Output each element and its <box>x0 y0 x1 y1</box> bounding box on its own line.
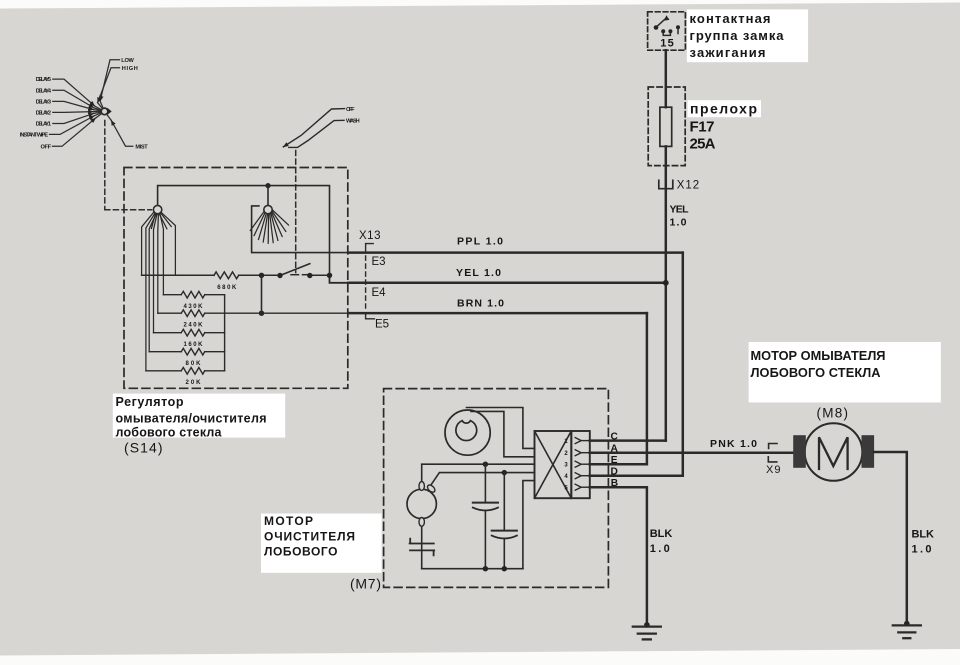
svg-text:15: 15 <box>660 38 674 50</box>
svg-text:1.0: 1.0 <box>912 543 932 555</box>
svg-text:C: C <box>611 432 619 443</box>
wire contact to riser <box>310 274 330 276</box>
junction YEL feed <box>663 280 669 286</box>
wire ignition to fuse <box>665 50 668 107</box>
svg-text:омывателя/очистителя: омывателя/очистителя <box>116 411 267 425</box>
wire BRN vertical to pin E <box>590 313 647 464</box>
svg-text:YEL 1.0: YEL 1.0 <box>456 267 501 279</box>
svg-text:E4: E4 <box>372 287 387 299</box>
washer switch lever OFF <box>283 109 344 147</box>
svg-text:OFF: OFF <box>41 144 52 150</box>
tap wire main row to 240K row <box>261 275 263 313</box>
svg-text:OFF: OFF <box>346 107 355 113</box>
park cam outer circle <box>445 410 490 455</box>
svg-text:ЛОБОВОГО: ЛОБОВОГО <box>264 544 338 558</box>
svg-text:X13: X13 <box>359 230 381 242</box>
wire resistor to contact <box>239 274 280 276</box>
M7 motor label <box>261 514 382 573</box>
M8 washer motor label <box>749 342 941 403</box>
wire motor bottom lead <box>421 526 423 568</box>
wire motor brush to pin 3 <box>422 464 535 481</box>
S14 regulator dashed box <box>124 168 348 389</box>
svg-text:Регулятор: Регулятор <box>116 395 184 409</box>
svg-text:80K: 80K <box>186 361 202 367</box>
ignition switch label <box>687 9 808 62</box>
top bus wire inside S14 <box>158 186 330 276</box>
ground G2 <box>904 621 910 627</box>
connector block X cross <box>535 431 572 498</box>
wire YEL 1.0 <box>349 282 666 285</box>
svg-text:YEL: YEL <box>670 204 690 216</box>
svg-text:(S14): (S14) <box>124 440 163 456</box>
connector block pin column <box>571 431 590 498</box>
breaker plates symbol <box>410 539 435 556</box>
wire motor brush to pin 4 <box>430 473 535 487</box>
resistor 20K <box>146 370 181 372</box>
svg-text:HIGH: HIGH <box>122 66 138 72</box>
svg-text:LOW: LOW <box>121 58 134 64</box>
svg-text:X9: X9 <box>766 464 781 476</box>
capacitor C1 <box>484 464 486 501</box>
wire PPL 1.0 <box>349 251 683 254</box>
wire pin B to ground <box>590 487 647 623</box>
wire bottom bus to pin 5 <box>523 481 535 569</box>
node junction on top bus <box>265 183 270 188</box>
svg-text:DELAY 5: DELAY 5 <box>36 77 51 83</box>
rotary wafer contact fan S1b <box>264 205 272 213</box>
svg-text:20K: 20K <box>186 380 202 386</box>
wire riser fan2 <box>267 186 269 206</box>
wire bottom bus <box>422 568 523 570</box>
S14 regulator label <box>113 394 285 438</box>
svg-text:зажигания: зажигания <box>690 45 766 60</box>
svg-text:E: E <box>611 455 618 466</box>
svg-text:X12: X12 <box>677 180 699 192</box>
capacitor C2 <box>503 473 505 530</box>
svg-text:25A: 25A <box>690 136 716 153</box>
rotary wafer contact fan S1a <box>153 205 161 213</box>
ladder bus wire <box>224 295 226 371</box>
svg-text:1.0: 1.0 <box>670 217 687 229</box>
ignition switch dashed box <box>648 12 686 50</box>
M7 wiper motor dashed box <box>384 389 609 588</box>
svg-text:BLK: BLK <box>650 528 673 540</box>
ignition switch contacts S <box>656 19 678 36</box>
svg-text:D: D <box>611 467 618 478</box>
svg-text:680K: 680K <box>217 285 237 291</box>
svg-text:430K: 430K <box>184 304 204 310</box>
fuse label <box>688 100 762 117</box>
wiper rotary switch knob <box>101 108 108 115</box>
svg-text:контактная: контактная <box>690 11 771 26</box>
brush ovals <box>419 482 436 527</box>
junction caps <box>483 462 488 467</box>
connector X12 symbol <box>659 180 673 188</box>
delay switch blade <box>280 264 310 276</box>
wire PPL vertical to pin D <box>590 253 683 476</box>
washer switch lever WASH <box>289 120 344 147</box>
junction and contact dots <box>259 273 332 316</box>
fuse F17 element <box>660 107 672 146</box>
park cam lobe <box>456 421 477 441</box>
svg-text:группа замка: группа замка <box>690 28 785 43</box>
svg-text:DELAY 2: DELAY 2 <box>36 111 51 117</box>
svg-text:MIST: MIST <box>135 144 148 150</box>
resistor 680K <box>214 272 239 279</box>
svg-text:DELAY 1: DELAY 1 <box>36 122 51 128</box>
washer switch dashed linkage <box>295 151 297 273</box>
svg-text:(М7): (М7) <box>350 575 381 591</box>
fuse F17 dashed box <box>648 87 685 166</box>
wire main row left <box>142 274 214 276</box>
svg-text:E5: E5 <box>375 318 389 330</box>
wire PNK 1.0 pin A to washer motor <box>590 451 793 454</box>
motor M7 armature <box>407 489 436 518</box>
wire BRN 1.0 <box>349 312 647 315</box>
svg-text:E3: E3 <box>372 256 386 268</box>
wire jog to E4 <box>330 275 349 283</box>
resistor 430K <box>163 294 181 296</box>
svg-text:ОЧИСТИТЕЛЯ: ОЧИСТИТЕЛЯ <box>264 529 355 543</box>
resistor 160K <box>154 332 182 334</box>
svg-text:160K: 160K <box>184 342 204 348</box>
rotary switch labels <box>20 58 148 150</box>
svg-text:F17: F17 <box>690 119 715 136</box>
svg-text:МОТОР ОМЫВАТЕЛЯ: МОТОР ОМЫВАТЕЛЯ <box>751 348 886 363</box>
wire cam to pin 1 <box>467 408 535 449</box>
svg-text:1.0: 1.0 <box>650 543 670 555</box>
svg-text:лобового стекла: лобового стекла <box>116 426 223 440</box>
wire cam to pin 2 <box>471 411 535 456</box>
resistor 240K <box>158 312 181 314</box>
svg-text:прелохр: прелохр <box>690 101 757 117</box>
wire pin C row <box>590 439 666 442</box>
rotary mechanical dashed linkage <box>105 121 152 210</box>
rotary position lines <box>50 60 133 147</box>
svg-text:DELAY 4: DELAY 4 <box>36 88 52 94</box>
svg-text:WASH: WASH <box>346 118 360 124</box>
svg-text:DELAY 3: DELAY 3 <box>36 100 51 106</box>
connector X9 <box>768 444 777 462</box>
svg-text:МОТОР: МОТОР <box>264 514 313 528</box>
svg-text:INSTANT WIPE: INSTANT WIPE <box>20 132 49 138</box>
svg-text:BLK: BLK <box>912 528 935 540</box>
resistor 80K <box>149 351 181 353</box>
svg-text:ЛОБОВОГО СТЕКЛА: ЛОБОВОГО СТЕКЛА <box>751 365 881 380</box>
ground G1 <box>644 622 650 628</box>
wire fan2 pickup to E3 <box>252 206 349 253</box>
wire fuse to X12 and down to pin C (YEL vertical) <box>665 146 668 440</box>
wire washer motor to ground <box>874 452 907 622</box>
svg-text:240K: 240K <box>184 322 204 328</box>
